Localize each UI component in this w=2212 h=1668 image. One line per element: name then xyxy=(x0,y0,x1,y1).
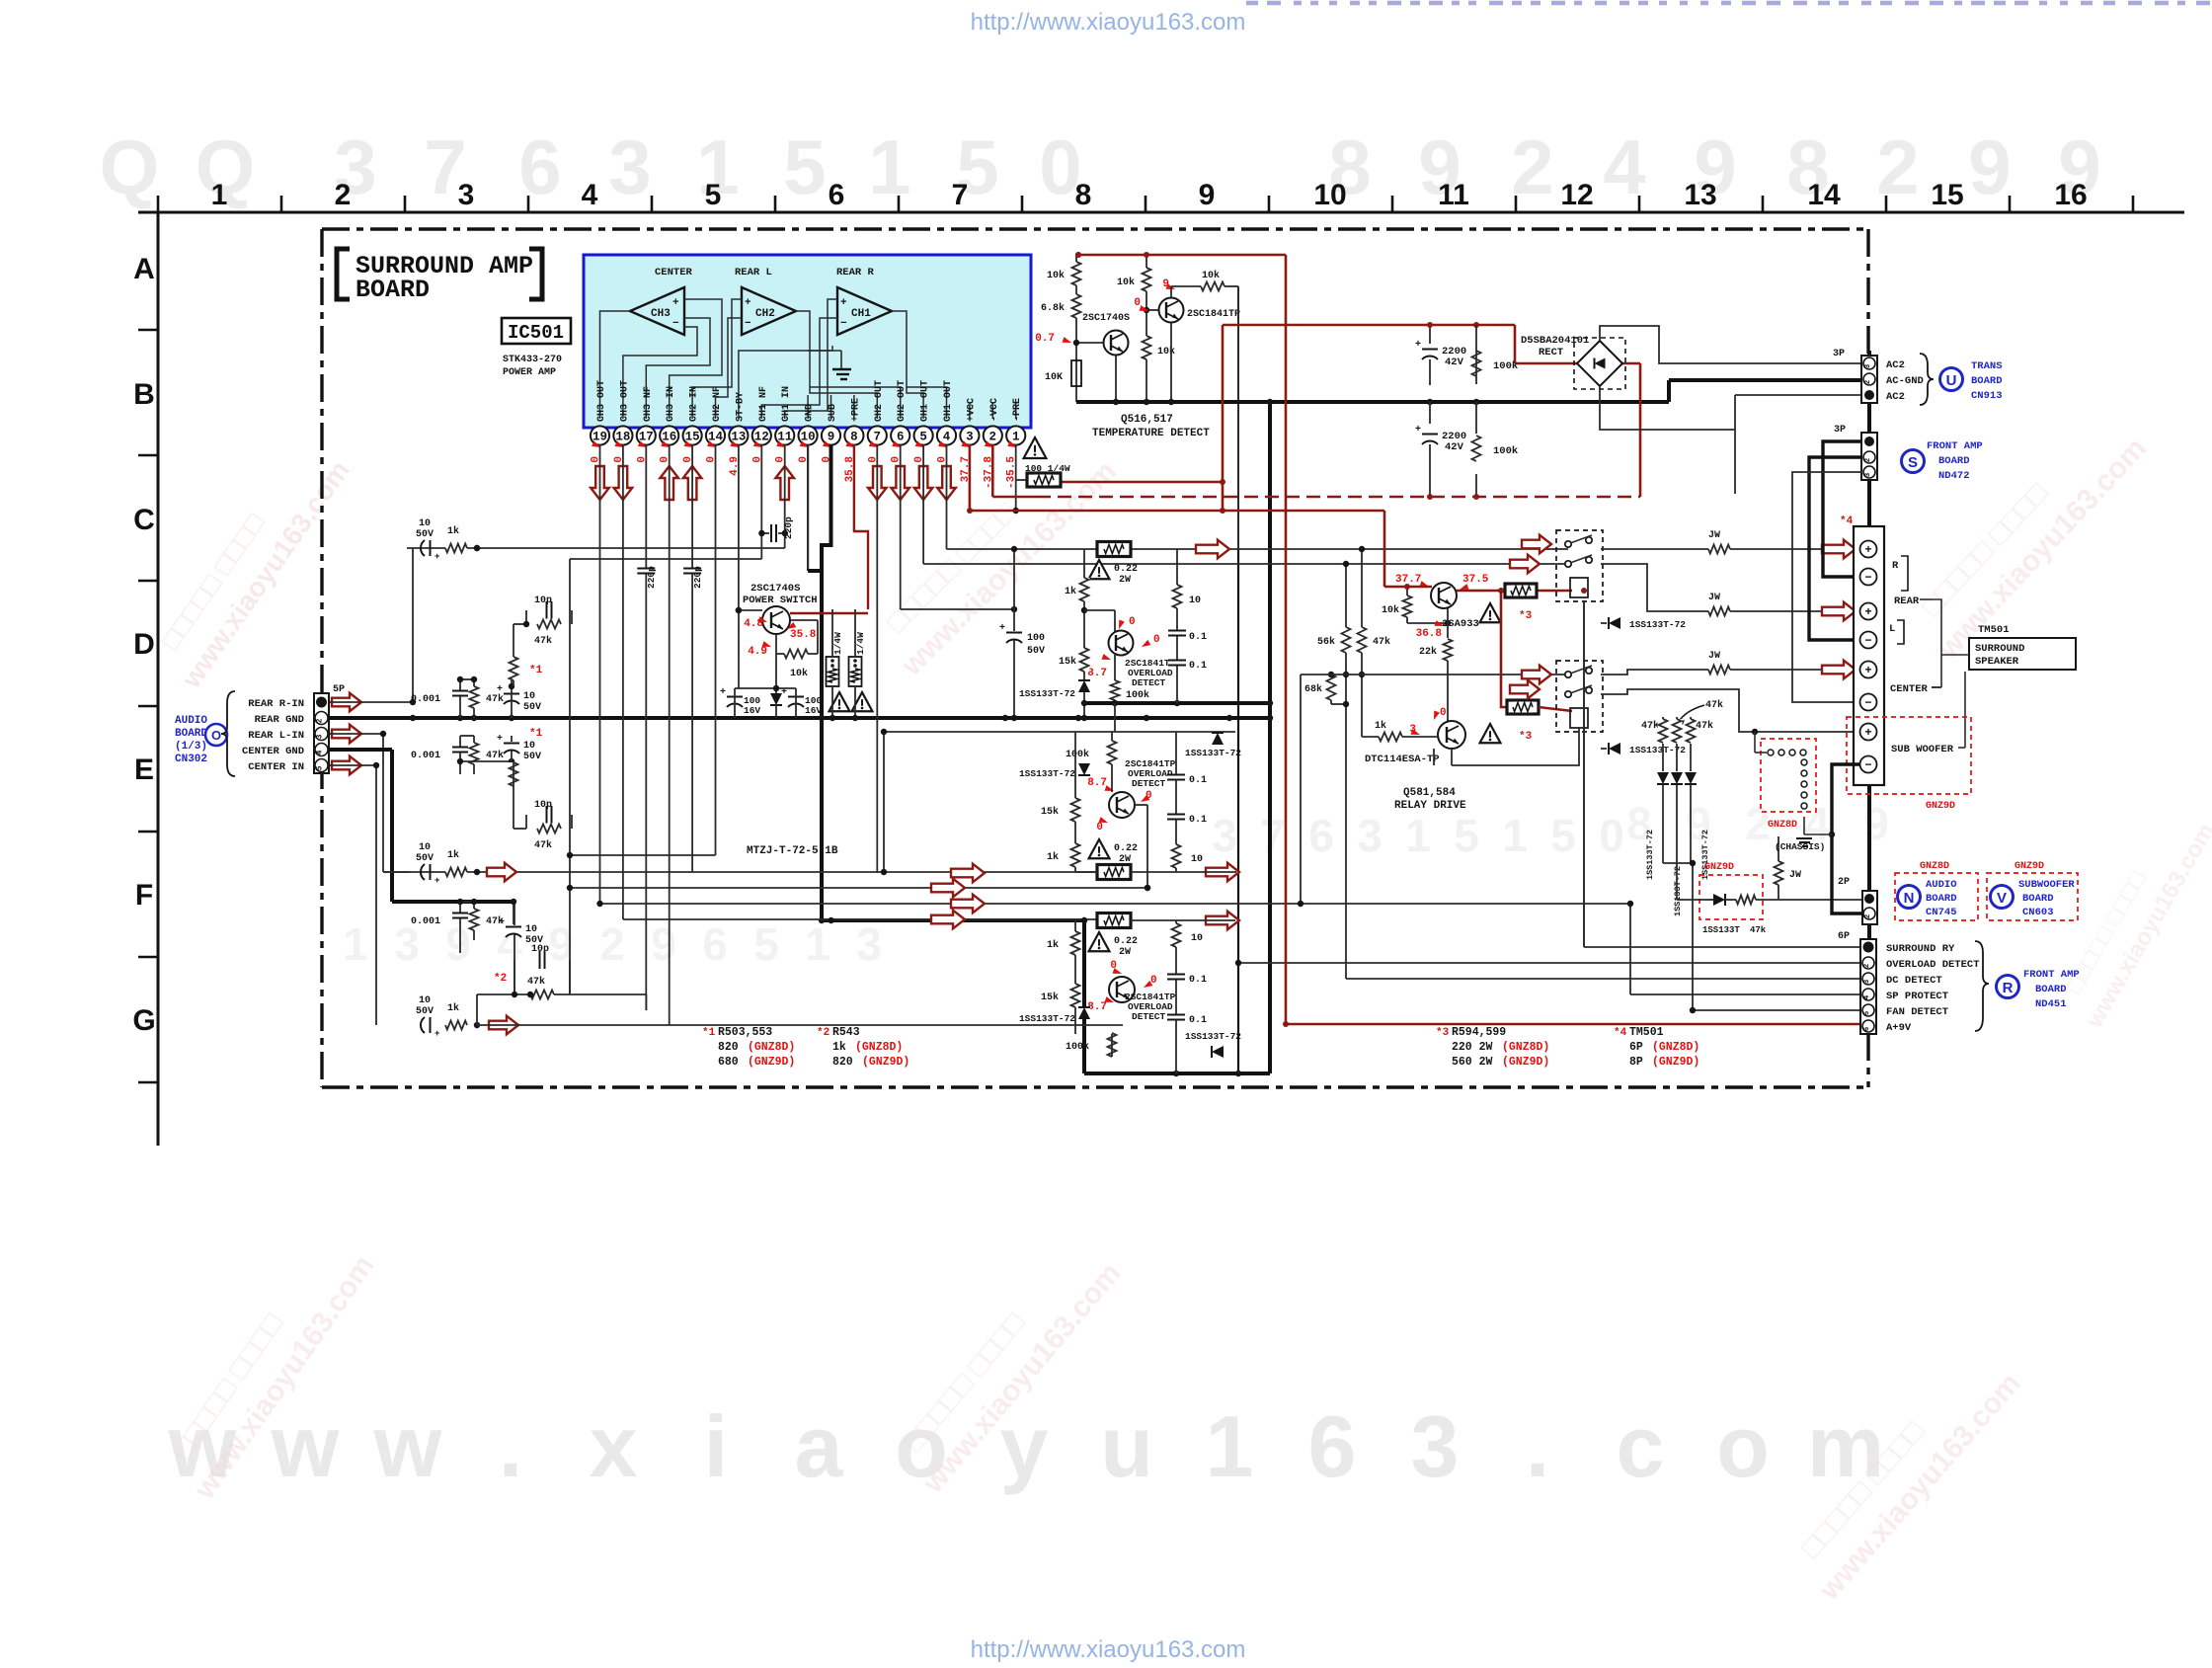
svg-text:560 2W: 560 2W xyxy=(1452,1056,1493,1069)
svg-text:2P: 2P xyxy=(1838,877,1850,888)
svg-text:7: 7 xyxy=(1260,810,1286,861)
svg-text:50V: 50V xyxy=(416,529,434,540)
svg-text:CN745: CN745 xyxy=(1926,907,1957,918)
svg-text:GNZ9D: GNZ9D xyxy=(1704,862,1734,873)
svg-text:(GNZ8D): (GNZ8D) xyxy=(855,1041,903,1054)
svg-text:3: 3 xyxy=(966,431,974,444)
svg-text:10: 10 xyxy=(523,691,535,702)
svg-text:+: + xyxy=(434,552,439,562)
svg-text:N: N xyxy=(1904,890,1915,907)
svg-text:0.22: 0.22 xyxy=(1114,564,1138,575)
svg-text:R543: R543 xyxy=(832,1026,860,1039)
svg-text:BOARD: BOARD xyxy=(355,276,430,304)
svg-text:JW: JW xyxy=(1708,593,1720,603)
svg-text:5: 5 xyxy=(705,179,722,211)
svg-text:220p: 220p xyxy=(783,516,794,539)
svg-text:2: 2 xyxy=(1864,457,1872,462)
svg-text:ST-BY: ST-BY xyxy=(735,392,746,422)
svg-text:CENTER IN: CENTER IN xyxy=(248,761,304,773)
svg-text:+: + xyxy=(1864,664,1871,677)
svg-text:47k: 47k xyxy=(534,839,552,851)
svg-text:10p: 10p xyxy=(534,596,552,606)
svg-text:DETECT: DETECT xyxy=(1132,1011,1166,1022)
svg-text:0.1: 0.1 xyxy=(1189,1015,1207,1026)
svg-text:BOARD: BOARD xyxy=(2022,893,2054,905)
svg-text:37.7: 37.7 xyxy=(1395,574,1421,586)
svg-text:3: 3 xyxy=(1863,979,1871,984)
svg-text:*3: *3 xyxy=(1436,1027,1450,1039)
svg-text:−: − xyxy=(745,318,751,330)
svg-text:1: 1 xyxy=(343,918,368,970)
svg-text:100: 100 xyxy=(1027,633,1045,644)
svg-text:100k: 100k xyxy=(1066,1041,1089,1053)
svg-text:*1: *1 xyxy=(529,728,543,740)
svg-text:3P: 3P xyxy=(1834,425,1846,436)
svg-text:JW: JW xyxy=(1789,870,1801,881)
svg-text:TEMPERATURE DETECT: TEMPERATURE DETECT xyxy=(1092,428,1210,439)
svg-text:(CHASSIS): (CHASSIS) xyxy=(1775,841,1825,852)
svg-text:3: 3 xyxy=(1357,810,1382,861)
svg-text:16: 16 xyxy=(2054,179,2087,211)
svg-text:100k: 100k xyxy=(1493,360,1518,372)
svg-text:C: C xyxy=(133,504,155,536)
svg-text:7: 7 xyxy=(874,431,882,444)
svg-text:47k: 47k xyxy=(1641,720,1659,732)
svg-text:*4: *4 xyxy=(1840,516,1854,527)
svg-text:REAR GND: REAR GND xyxy=(255,714,304,726)
svg-text:10: 10 xyxy=(1191,933,1203,944)
svg-text:0.1: 0.1 xyxy=(1189,775,1207,786)
svg-text:CENTER: CENTER xyxy=(1890,683,1929,695)
svg-text:TRANS: TRANS xyxy=(1971,360,2003,372)
svg-text:CH3 IN: CH3 IN xyxy=(666,386,676,422)
svg-text:4: 4 xyxy=(1863,994,1871,999)
svg-text:4: 4 xyxy=(316,750,325,755)
svg-text:1SS133T-72: 1SS133T-72 xyxy=(1019,768,1075,779)
svg-text:1SS133T-72: 1SS133T-72 xyxy=(1645,830,1655,880)
svg-text:9: 9 xyxy=(828,431,835,444)
svg-text:+: + xyxy=(1864,605,1871,619)
svg-text:50V: 50V xyxy=(523,752,541,762)
svg-text:DTC114ESA-TP: DTC114ESA-TP xyxy=(1365,754,1440,765)
svg-text:w: w xyxy=(271,1397,340,1495)
svg-text:10k: 10k xyxy=(790,668,808,679)
svg-text:10: 10 xyxy=(419,842,431,853)
svg-text:47k: 47k xyxy=(1696,720,1713,732)
svg-text:E: E xyxy=(134,754,154,786)
svg-text:37.5: 37.5 xyxy=(1462,574,1489,586)
svg-text:SUB: SUB xyxy=(828,404,838,422)
svg-text:-VCC: -VCC xyxy=(989,398,1000,422)
svg-text:+PRE: +PRE xyxy=(850,398,861,422)
svg-text:*3: *3 xyxy=(1519,731,1533,743)
svg-text:100k: 100k xyxy=(1066,749,1089,760)
svg-text:CH3 NF: CH3 NF xyxy=(643,386,654,422)
svg-text:0.1: 0.1 xyxy=(1189,632,1207,643)
svg-text:1k: 1k xyxy=(447,849,459,861)
svg-text:DC DETECT: DC DETECT xyxy=(1886,975,1942,987)
svg-text:3: 3 xyxy=(1864,363,1872,368)
svg-text:F: F xyxy=(135,879,153,912)
svg-text:2: 2 xyxy=(989,431,997,444)
svg-text:3: 3 xyxy=(1212,810,1237,861)
svg-text:+: + xyxy=(745,297,751,309)
svg-text:2W: 2W xyxy=(1119,854,1131,865)
svg-text:10: 10 xyxy=(523,741,535,752)
svg-text:50V: 50V xyxy=(416,853,434,864)
svg-text:1: 1 xyxy=(1012,431,1020,444)
svg-text:10: 10 xyxy=(1191,854,1203,865)
svg-text:DETECT: DETECT xyxy=(1132,677,1166,688)
svg-text:2: 2 xyxy=(1864,379,1872,384)
svg-text:MTZJ-T-72-5.1B: MTZJ-T-72-5.1B xyxy=(747,845,838,857)
svg-text:−: − xyxy=(840,318,847,330)
svg-text:V: V xyxy=(1997,890,2007,907)
svg-text:47k: 47k xyxy=(1373,636,1390,648)
svg-text:(GNZ9D): (GNZ9D) xyxy=(1502,1056,1549,1069)
svg-text:BOARD: BOARD xyxy=(1926,893,1957,905)
svg-text:10k: 10k xyxy=(1202,270,1220,281)
svg-text:+: + xyxy=(720,687,726,698)
svg-text:+: + xyxy=(999,623,1005,634)
svg-text:1: 1 xyxy=(805,918,830,970)
svg-text:BOARD: BOARD xyxy=(1971,375,2003,387)
svg-text:CH1 OUT: CH1 OUT xyxy=(943,380,954,422)
svg-text:−: − xyxy=(1864,758,1871,772)
svg-text:SURROUND RY: SURROUND RY xyxy=(1886,943,1955,955)
svg-text:2W: 2W xyxy=(1119,575,1131,586)
svg-text:S: S xyxy=(1908,454,1918,471)
svg-text:TM501: TM501 xyxy=(1978,624,2010,636)
svg-text:R: R xyxy=(1892,560,1899,572)
svg-text:CH1 OUT: CH1 OUT xyxy=(920,380,931,422)
svg-text:ND472: ND472 xyxy=(1938,470,1970,482)
svg-text:CENTER: CENTER xyxy=(655,267,693,278)
svg-text:4.9: 4.9 xyxy=(748,646,767,658)
svg-text:8: 8 xyxy=(850,431,858,444)
svg-text:2SC1841TP: 2SC1841TP xyxy=(1187,309,1240,320)
svg-text:+VCC: +VCC xyxy=(966,398,977,422)
svg-text:Q516,517: Q516,517 xyxy=(1121,414,1173,426)
svg-text:47k: 47k xyxy=(486,750,504,761)
svg-text:100k: 100k xyxy=(1493,445,1518,457)
svg-text:10: 10 xyxy=(1189,596,1201,606)
svg-text:CENTER GND: CENTER GND xyxy=(242,746,304,757)
svg-text:1SS133T-72: 1SS133T-72 xyxy=(1185,1031,1241,1042)
svg-text:O: O xyxy=(211,728,221,743)
svg-text:47k: 47k xyxy=(527,976,545,988)
svg-text:*2: *2 xyxy=(817,1027,829,1039)
svg-text:o: o xyxy=(1716,1397,1770,1495)
svg-text:http://www.xiaoyu163.com: http://www.xiaoyu163.com xyxy=(971,1636,1246,1663)
svg-text:5: 5 xyxy=(1863,1010,1871,1015)
svg-text:−: − xyxy=(672,318,679,330)
svg-text:5P: 5P xyxy=(333,684,345,695)
svg-text:B: B xyxy=(133,378,155,411)
svg-text:CH2: CH2 xyxy=(755,308,775,320)
svg-text:1SS133T-72: 1SS133T-72 xyxy=(1185,748,1241,758)
svg-text:11: 11 xyxy=(1438,179,1469,211)
svg-text:5: 5 xyxy=(783,123,826,210)
svg-text:U: U xyxy=(1946,372,1957,389)
svg-text:(GNZ9D): (GNZ9D) xyxy=(862,1056,909,1069)
svg-text:36.8: 36.8 xyxy=(1416,628,1443,640)
svg-text:AC-GND: AC-GND xyxy=(1886,375,1924,387)
svg-text:4: 4 xyxy=(943,431,951,444)
svg-text:2: 2 xyxy=(1745,798,1771,849)
svg-text:3: 3 xyxy=(316,734,325,739)
svg-text:5: 5 xyxy=(919,431,927,444)
svg-text:+: + xyxy=(434,876,439,886)
svg-text:D5SBA204101: D5SBA204101 xyxy=(1521,335,1589,347)
svg-text:OVERLOAD DETECT: OVERLOAD DETECT xyxy=(1886,959,1980,971)
svg-text:15k: 15k xyxy=(1041,992,1059,1003)
svg-text:i: i xyxy=(704,1397,728,1495)
svg-text:6: 6 xyxy=(1863,1026,1871,1031)
svg-text:6P: 6P xyxy=(1838,931,1850,942)
svg-text:CH2 NF: CH2 NF xyxy=(712,386,723,422)
svg-text:R503,553: R503,553 xyxy=(718,1026,772,1039)
svg-text:1k: 1k xyxy=(447,1002,459,1014)
svg-text:*1: *1 xyxy=(702,1027,716,1039)
svg-text:+: + xyxy=(497,734,503,745)
svg-text:1: 1 xyxy=(211,179,228,211)
svg-text:35.8: 35.8 xyxy=(790,629,817,641)
svg-text:2: 2 xyxy=(1876,123,1919,210)
svg-text:8: 8 xyxy=(1075,179,1092,211)
svg-text:A: A xyxy=(133,253,155,285)
svg-text:Q: Q xyxy=(100,123,160,210)
svg-text:−: − xyxy=(1864,696,1871,710)
svg-text:1k: 1k xyxy=(1375,720,1386,732)
svg-text:10k: 10k xyxy=(1047,270,1065,281)
svg-text:42V: 42V xyxy=(1445,357,1464,368)
svg-text:GNZ8D: GNZ8D xyxy=(1768,820,1797,831)
svg-text:SUBWOOFER: SUBWOOFER xyxy=(2018,879,2075,891)
svg-text:5: 5 xyxy=(1454,810,1479,861)
svg-text:CH3 OUT: CH3 OUT xyxy=(619,380,630,422)
svg-text:a: a xyxy=(795,1397,844,1495)
svg-text:1SS133T-72: 1SS133T-72 xyxy=(1673,866,1683,916)
svg-text:REAR: REAR xyxy=(1894,596,1920,607)
svg-text:2W: 2W xyxy=(1119,947,1131,958)
svg-text:c: c xyxy=(1617,1397,1665,1495)
svg-text:2: 2 xyxy=(1511,123,1553,210)
svg-text:2: 2 xyxy=(1863,963,1871,968)
svg-text:50V: 50V xyxy=(523,702,541,713)
svg-text:47k: 47k xyxy=(534,635,552,647)
svg-text:22k: 22k xyxy=(1419,646,1437,658)
svg-text:9: 9 xyxy=(651,918,676,970)
svg-text:0.1: 0.1 xyxy=(1189,815,1207,826)
svg-text:POWER AMP: POWER AMP xyxy=(503,367,556,378)
svg-text:GNZ9D: GNZ9D xyxy=(2014,861,2044,872)
svg-text:10: 10 xyxy=(525,924,537,935)
svg-text:REAR R-IN: REAR R-IN xyxy=(248,698,304,710)
svg-text:+: + xyxy=(1864,726,1871,740)
svg-text:2: 2 xyxy=(599,918,625,970)
svg-text:SURROUND: SURROUND xyxy=(1975,643,2024,655)
svg-text:8.7: 8.7 xyxy=(1087,777,1107,789)
svg-text:220p: 220p xyxy=(692,566,703,589)
svg-text:12: 12 xyxy=(1560,179,1593,211)
svg-text:RECT: RECT xyxy=(1539,347,1563,358)
svg-text:CN302: CN302 xyxy=(175,754,207,765)
svg-text:42V: 42V xyxy=(1445,441,1464,453)
svg-text:AUDIO: AUDIO xyxy=(175,715,207,727)
svg-text:68k: 68k xyxy=(1304,683,1322,695)
svg-text:G: G xyxy=(132,1004,155,1037)
svg-text:CH1: CH1 xyxy=(851,308,871,320)
svg-text:6: 6 xyxy=(702,918,728,970)
svg-text:SPEAKER: SPEAKER xyxy=(1975,656,2019,668)
svg-text:*1: *1 xyxy=(529,665,543,676)
svg-text:0: 0 xyxy=(1153,634,1160,646)
svg-text:6: 6 xyxy=(518,123,561,210)
svg-text:BOARD: BOARD xyxy=(2035,984,2067,995)
svg-text:1SS133T-72: 1SS133T-72 xyxy=(1019,688,1075,699)
svg-text:2: 2 xyxy=(316,718,325,723)
svg-text:FAN DETECT: FAN DETECT xyxy=(1886,1006,1948,1018)
svg-text:6: 6 xyxy=(829,179,845,211)
svg-text:1: 1 xyxy=(1502,810,1528,861)
svg-text:7: 7 xyxy=(952,179,969,211)
svg-text:*3: *3 xyxy=(1519,610,1533,622)
svg-text:15k: 15k xyxy=(1059,656,1076,668)
svg-text:TM501: TM501 xyxy=(1629,1026,1664,1039)
svg-text:+: + xyxy=(840,297,847,309)
svg-text:+: + xyxy=(434,1029,439,1039)
svg-text:8P: 8P xyxy=(1629,1056,1643,1069)
svg-text:0.1: 0.1 xyxy=(1189,661,1207,672)
svg-text:STK433-270: STK433-270 xyxy=(503,355,562,365)
svg-text:SP PROTECT: SP PROTECT xyxy=(1886,991,1948,1002)
svg-text:A+9V: A+9V xyxy=(1886,1022,1912,1034)
svg-text:16V: 16V xyxy=(805,705,822,716)
svg-text:8.7: 8.7 xyxy=(1087,1001,1107,1013)
svg-text:FRONT AMP: FRONT AMP xyxy=(2023,969,2080,981)
svg-text:−: − xyxy=(1864,634,1871,648)
svg-text:10k: 10k xyxy=(1157,346,1175,357)
svg-text:+: + xyxy=(1415,340,1421,351)
svg-text:*4: *4 xyxy=(1614,1027,1627,1039)
svg-text:IC501: IC501 xyxy=(508,322,564,344)
svg-text:FRONT AMP: FRONT AMP xyxy=(1927,440,1983,452)
svg-text:0: 0 xyxy=(1440,707,1447,719)
svg-text:CN603: CN603 xyxy=(2022,907,2054,918)
svg-text:6: 6 xyxy=(1308,810,1334,861)
svg-text:5: 5 xyxy=(316,765,325,770)
svg-text:2: 2 xyxy=(1864,913,1872,918)
svg-text:+: + xyxy=(1864,543,1871,557)
svg-text:GNZ9D: GNZ9D xyxy=(1926,801,1955,812)
svg-text:6: 6 xyxy=(1308,1397,1357,1495)
svg-text:Q581,584: Q581,584 xyxy=(1403,787,1456,799)
svg-text:3: 3 xyxy=(856,918,882,970)
svg-text:10: 10 xyxy=(419,518,431,529)
svg-text:10k: 10k xyxy=(1117,277,1135,288)
svg-text:5: 5 xyxy=(753,918,779,970)
svg-text:220p: 220p xyxy=(646,566,657,589)
svg-text:2: 2 xyxy=(335,179,352,211)
svg-text:0.7: 0.7 xyxy=(1035,333,1055,345)
svg-text:AUDIO: AUDIO xyxy=(1926,879,1957,891)
svg-text:10: 10 xyxy=(1313,179,1346,211)
svg-text:GND: GND xyxy=(805,404,816,422)
svg-text:6.8k: 6.8k xyxy=(1041,302,1065,314)
svg-text:1/4W: 1/4W xyxy=(832,632,843,655)
svg-text:(GNZ8D): (GNZ8D) xyxy=(1502,1041,1549,1054)
svg-text:CH2 IN: CH2 IN xyxy=(689,386,700,422)
svg-text:http://www.xiaoyu163.com: http://www.xiaoyu163.com xyxy=(971,9,1246,36)
svg-text:POWER SWITCH: POWER SWITCH xyxy=(743,595,818,606)
svg-text:0: 0 xyxy=(1096,822,1103,834)
svg-text:0: 0 xyxy=(1599,810,1624,861)
svg-text:R594,599: R594,599 xyxy=(1452,1026,1506,1039)
svg-text:1k: 1k xyxy=(1065,586,1076,597)
svg-text:D: D xyxy=(133,628,155,661)
svg-text:1k: 1k xyxy=(447,525,459,537)
svg-text:w: w xyxy=(373,1397,442,1495)
svg-text:1: 1 xyxy=(868,123,910,210)
svg-text:10p: 10p xyxy=(534,800,552,811)
svg-text:10: 10 xyxy=(419,995,431,1006)
svg-text:820: 820 xyxy=(832,1056,853,1069)
svg-text:(GNZ8D): (GNZ8D) xyxy=(1652,1041,1699,1054)
svg-text:0.001: 0.001 xyxy=(411,916,440,927)
svg-text:1: 1 xyxy=(1206,1397,1254,1495)
svg-text:JW: JW xyxy=(1708,530,1720,541)
svg-text:CH3 OUT: CH3 OUT xyxy=(596,380,607,422)
svg-text:1k: 1k xyxy=(832,1041,846,1054)
svg-text:9: 9 xyxy=(1968,123,2011,210)
svg-text:CH1 IN: CH1 IN xyxy=(781,386,792,422)
svg-text:10k: 10k xyxy=(1382,604,1399,616)
svg-text:680: 680 xyxy=(718,1056,739,1069)
svg-text:1k: 1k xyxy=(1047,939,1059,951)
svg-text:-PRE: -PRE xyxy=(1012,398,1023,422)
svg-text:x: x xyxy=(590,1397,638,1495)
svg-text:1SS133T-72: 1SS133T-72 xyxy=(1019,1013,1075,1024)
svg-text:3: 3 xyxy=(608,123,651,210)
svg-text:+: + xyxy=(672,297,679,309)
svg-text:100k: 100k xyxy=(1126,689,1149,701)
svg-text:10K: 10K xyxy=(1045,372,1063,383)
svg-text:+: + xyxy=(1415,425,1421,436)
svg-text:220 2W: 220 2W xyxy=(1452,1041,1493,1054)
svg-text:DETECT: DETECT xyxy=(1132,778,1166,789)
svg-text:BOARD: BOARD xyxy=(175,728,207,740)
svg-text:1SS133T: 1SS133T xyxy=(1702,925,1740,935)
svg-text:16V: 16V xyxy=(744,705,760,716)
svg-text:47k: 47k xyxy=(1705,699,1723,711)
svg-text:REAR R: REAR R xyxy=(836,267,875,278)
svg-text:50V: 50V xyxy=(416,1006,434,1017)
svg-text:0.001: 0.001 xyxy=(411,751,440,761)
svg-text:R: R xyxy=(2003,980,2014,996)
svg-text:CH1 NF: CH1 NF xyxy=(758,386,769,422)
svg-text:5: 5 xyxy=(1550,810,1576,861)
svg-text:*2: *2 xyxy=(494,973,507,985)
svg-text:14: 14 xyxy=(1807,179,1841,211)
svg-text:56k: 56k xyxy=(1317,636,1335,648)
svg-text:CH2 OUT: CH2 OUT xyxy=(874,380,885,422)
svg-text:8.7: 8.7 xyxy=(1087,668,1107,679)
svg-text:GNZ8D: GNZ8D xyxy=(1920,861,1949,872)
svg-text:+: + xyxy=(497,684,503,695)
svg-text:CN913: CN913 xyxy=(1971,390,2003,402)
svg-text:AC2: AC2 xyxy=(1886,359,1905,371)
